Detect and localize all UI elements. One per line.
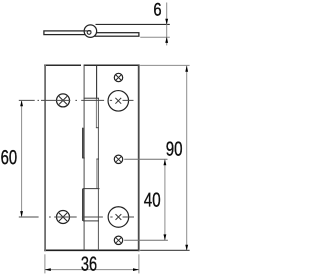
dim 36 text [81,253,97,275]
right large hole top [108,91,129,112]
knuckle boundary tick 1 [84,97,99,99]
knuckle inner curl [84,31,91,35]
dim 36 arrow left [45,268,51,271]
svg-text:60: 60 [1,147,18,169]
top view right leaf [95,33,139,37]
right small hole top [114,73,122,81]
centerline hole row 2 [19,216,134,218]
dim 40 arrow down [164,234,167,240]
knuckle boundary tick 3a [82,157,85,159]
svg-text:6: 6 [153,0,161,20]
knuckle seg1 curl edge [96,65,98,98]
dim 6 arrow down [165,19,168,25]
svg-text:40: 40 [144,189,161,211]
right small hole middle [114,155,122,163]
knuckle boundary tick 4 [83,188,100,190]
dim 6 text [153,0,161,20]
knuckle seg3 dark edge [82,128,84,158]
knuckle outer circle [84,25,97,37]
knuckle seg4 inner edge [96,159,98,189]
knuckle joint left line [83,65,85,250]
dim 90 text [166,139,183,161]
knuckle joint right line [97,98,99,250]
dim 40 arrow up [164,159,167,165]
knuckle boundary tick 5 [83,220,99,222]
knuckle seg5 dark edge [82,189,84,221]
knuckle seg2 inner edge [95,98,97,128]
dim 36 extension left [44,254,46,273]
right large hole bottom [108,207,128,228]
top edge gap at knuckle [81,64,84,67]
dim 36 line [45,269,139,271]
knuckle boundary tick 2 [96,127,99,129]
hinge plate outline [44,64,139,251]
centerline small hole bottom [124,239,168,241]
centerline hole row 1 [19,99,134,101]
dim 90 extension bottom [140,249,190,251]
dim 6 extension line bottom [140,36,170,38]
dim 6 extension line top [96,23,170,25]
dim 90 extension top [140,64,190,66]
dim 60 arrow down [20,211,23,217]
dim 90 line [186,65,188,250]
dim 6 line [166,3,168,46]
right small hole bottom [114,236,122,244]
svg-text:36: 36 [81,253,97,275]
dim 6 arrow up [165,37,168,43]
left screw hole bottom [57,211,70,224]
dim 60 line [21,100,23,217]
top view left leaf [44,31,86,35]
dim 90 arrow up [185,66,188,72]
left screw hole top [57,94,70,107]
knuckle boundary tick 3b [96,158,99,160]
dim 40 text [144,189,161,211]
dim 60 text [1,147,18,169]
dim 36 arrow right [133,268,139,271]
centerline small hole mid [124,158,167,160]
svg-text:90: 90 [166,139,183,161]
dim 90 arrow down [185,245,188,251]
dim 60 arrow up [20,100,23,106]
dim 40 line [164,159,166,240]
dim 36 extension right [138,254,140,273]
